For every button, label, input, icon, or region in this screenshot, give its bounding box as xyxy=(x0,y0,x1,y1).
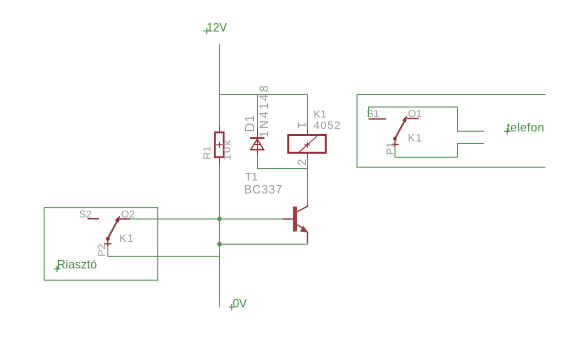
wire diode bottom to relay branch xyxy=(258,156,308,169)
resistor R1 xyxy=(215,127,224,164)
switch contact S1 xyxy=(369,118,387,120)
svg-text:1: 1 xyxy=(295,122,309,129)
svg-text:K1: K1 xyxy=(119,233,134,245)
wire P1 down and over to telefon stub xyxy=(395,144,484,158)
wire top rail horizontal xyxy=(220,94,308,96)
pin P2 stub xyxy=(104,240,111,247)
wire relay pin2 down to collector xyxy=(307,159,309,205)
supply 0V label xyxy=(229,298,248,310)
svg-text:D1: D1 xyxy=(242,114,257,132)
frame box Riaszto xyxy=(44,208,158,281)
svg-text:R1: R1 xyxy=(202,146,214,160)
svg-text:12V: 12V xyxy=(207,23,228,35)
svg-text:Riasztó: Riasztó xyxy=(57,257,97,271)
svg-text:0V: 0V xyxy=(233,298,247,310)
svg-text:1N4148: 1N4148 xyxy=(257,83,271,137)
svg-text:P2: P2 xyxy=(96,244,108,257)
supply +12V label xyxy=(204,23,228,35)
wire +12V vertical to R1 xyxy=(219,44,221,127)
wire left rail vertical (R1 bottom to 0V) xyxy=(219,164,221,308)
wire relay pin1 drop xyxy=(307,95,309,130)
label telefon xyxy=(504,121,544,135)
wire S1 up and over to telefon stub xyxy=(369,107,485,131)
switch contact O1 xyxy=(407,118,419,120)
transistor T1 xyxy=(283,205,308,244)
svg-text:telefon: telefon xyxy=(507,121,545,135)
switch lever K1 (telefon) xyxy=(393,115,407,140)
junction emitter node xyxy=(217,242,222,247)
frame box telefon (open right) xyxy=(357,95,546,168)
svg-text:BC337: BC337 xyxy=(244,183,283,196)
svg-text:10k: 10k xyxy=(222,138,234,160)
svg-text:O1: O1 xyxy=(408,108,422,120)
diode D1 xyxy=(250,129,265,156)
switch contact O2 xyxy=(117,218,130,220)
svg-text:K1: K1 xyxy=(314,108,327,120)
switch contact S2 xyxy=(88,218,100,220)
svg-text:T1: T1 xyxy=(245,172,258,184)
switch lever K1 (riaszto) xyxy=(106,215,120,240)
pin P1 stub xyxy=(391,140,398,147)
wire P2 to left rail xyxy=(108,247,220,257)
wire base horizontal xyxy=(130,218,283,220)
svg-text:2: 2 xyxy=(295,159,309,166)
svg-text:4052: 4052 xyxy=(314,120,342,132)
svg-text:S2: S2 xyxy=(79,209,92,221)
svg-text:O2: O2 xyxy=(121,209,135,221)
svg-text:K1: K1 xyxy=(408,132,423,144)
label Riaszto xyxy=(54,257,97,272)
wire diode top drop xyxy=(257,95,259,130)
relay coil K1 xyxy=(288,129,326,159)
wire emitter rail xyxy=(220,243,308,245)
junction base node xyxy=(217,217,222,222)
